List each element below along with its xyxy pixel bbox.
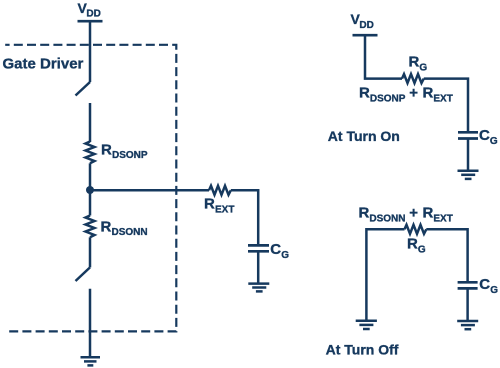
capacitor CG (turn on) [458,132,478,138]
resistor RG (turn on) [402,74,424,83]
label VDD (gate driver) [78,0,101,20]
svg-text:G: G [490,285,498,296]
svg-text:R: R [204,196,215,213]
switch S1 (high side, blade) [76,82,91,96]
wire VDD rail to switch S1 [89,21,92,82]
supply VDD (gate driver rail) [78,20,103,23]
svg-text:C: C [270,241,281,258]
ground (turn off, CG leg) [457,321,478,329]
label RDSONP [101,141,148,161]
ground (left circuit CG) [248,284,269,292]
svg-text:R: R [359,85,370,102]
wire REXT to CG [231,190,258,244]
ground (turn on) [458,171,479,179]
svg-text:R: R [101,141,112,158]
wire RDSONN to switch S2 [89,237,92,267]
svg-text:G: G [281,250,289,261]
wire S2 to ground [89,289,92,357]
svg-text:EXT: EXT [215,204,234,215]
switch S2 (low side, blade) [76,267,91,281]
svg-text:G: G [490,136,498,147]
svg-text:DSONN: DSONN [112,227,148,238]
resistor RDSONP [86,142,95,164]
label RDSONN [101,218,148,238]
svg-text:EXT: EXT [433,93,452,104]
svg-text:R: R [423,85,434,102]
label At Turn On [328,128,400,144]
ground (gate driver) [81,357,101,365]
label RG (turn on) [409,54,428,74]
label RDSONP + REXT (turn on) [359,85,453,105]
wire RDSONP to output node [89,163,92,190]
label CG (left circuit) [270,241,289,261]
wire VDD to RG (turn on) [365,35,402,78]
wire CG to ground [257,251,260,283]
label CG (turn off) [479,276,498,296]
resistor RDSONN [86,216,95,238]
svg-text:R: R [409,54,420,71]
capacitor CG (left circuit) [248,245,269,251]
dashed box Gate Driver (open left side) [5,45,176,332]
svg-text:At Turn Off: At Turn Off [326,341,399,357]
svg-text:EXT: EXT [433,213,452,224]
wire node to REXT [90,189,209,192]
svg-text:R: R [423,205,434,222]
label REXT [204,196,234,216]
svg-text:R: R [407,236,418,253]
svg-text:DSONN: DSONN [369,213,405,224]
wire CG to ground (turn off) [466,288,469,321]
wire CG to ground (turn on) [467,139,470,171]
wire node to RDSONN [89,190,92,216]
label RDSONN + REXT (turn off) [359,205,453,225]
svg-text:At Turn On: At Turn On [328,128,400,144]
label Gate Driver [3,55,84,72]
ground (turn off, left leg) [356,321,377,329]
wire S1 to RDSONP [89,103,92,142]
label At Turn Off [326,341,399,357]
supply VDD (turn-on circuit rail) [353,34,378,37]
svg-text:+: + [409,205,418,222]
svg-text:C: C [479,127,490,144]
svg-text:DSONP: DSONP [370,93,406,104]
node (driver output junction) [86,186,94,194]
svg-text:R: R [101,218,112,235]
svg-text:+: + [409,85,418,102]
capacitor CG (turn off) [458,282,478,288]
svg-text:DSONP: DSONP [112,150,148,161]
wire left leg (turn off) [366,229,404,320]
wire RG to CG (turn on) [424,79,468,132]
resistor RG (turn off) [405,225,427,234]
wire RG to CG (turn off) [426,229,467,281]
label CG (turn on) [479,127,498,147]
svg-text:R: R [359,205,370,222]
label VDD (turn on) [351,11,374,31]
resistor REXT [209,186,231,195]
svg-text:Gate Driver: Gate Driver [3,55,84,72]
svg-text:DD: DD [359,20,373,31]
svg-text:C: C [479,276,490,293]
svg-text:DD: DD [86,9,100,20]
svg-text:G: G [419,62,427,73]
svg-text:G: G [418,244,426,255]
label RG (turn off) [407,236,426,256]
